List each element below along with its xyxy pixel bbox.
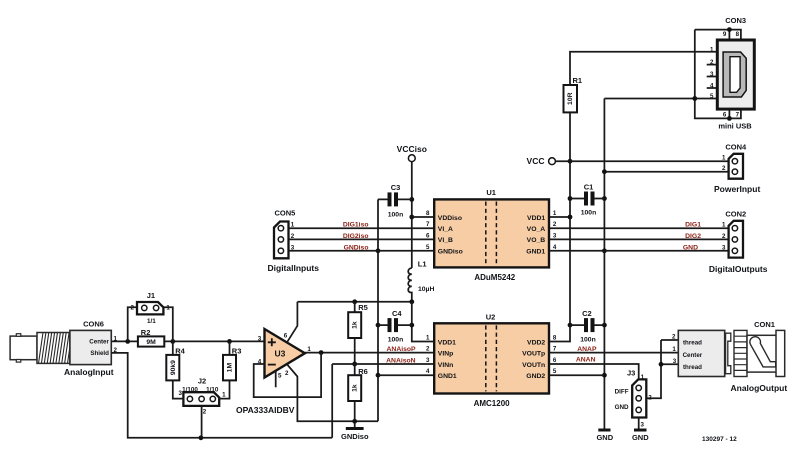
svg-text:3: 3 (710, 71, 714, 78)
svg-text:2: 2 (203, 409, 207, 416)
svg-text:Shield: Shield (90, 350, 109, 357)
IC U2 AMC1200 (434, 323, 549, 393)
wire CON5 pin2 row DIG2iso (284, 238, 435, 240)
wire U1 pin1 link (549, 216, 570, 218)
svg-text:VDD1: VDD1 (527, 215, 545, 222)
wire VCC row to CON4 pin1 (555, 160, 731, 162)
svg-text:thread: thread (683, 340, 702, 347)
svg-text:1k: 1k (352, 384, 359, 392)
svg-text:VDD1: VDD1 (438, 339, 456, 346)
svg-text:5: 5 (426, 244, 430, 251)
svg-text:R2: R2 (141, 328, 151, 337)
svg-text:J2: J2 (198, 376, 206, 385)
svg-text:VO_B: VO_B (527, 237, 546, 244)
svg-text:100n: 100n (581, 210, 597, 217)
svg-text:1: 1 (307, 346, 311, 353)
svg-text:Center: Center (683, 352, 703, 359)
junction C4 left (376, 323, 381, 328)
svg-text:1: 1 (710, 47, 714, 54)
svg-text:AMC1200: AMC1200 (474, 399, 511, 408)
wire CON5 pin3 row GNDiso (284, 250, 435, 252)
svg-text:CON1: CON1 (754, 320, 775, 329)
svg-text:GND2: GND2 (526, 373, 545, 380)
wire U2 VINn row ANAisoN (332, 363, 434, 365)
svg-text:ADuM5242: ADuM5242 (474, 273, 515, 282)
svg-text:DIG2iso: DIG2iso (343, 233, 369, 240)
junction R2 right R4 (170, 339, 175, 344)
svg-text:2: 2 (672, 334, 676, 341)
svg-text:CON2: CON2 (725, 210, 746, 219)
junction center J1 left (125, 339, 130, 344)
svg-text:ANAisoN: ANAisoN (386, 358, 416, 365)
svg-text:VI_B: VI_B (438, 237, 453, 244)
svg-text:2: 2 (285, 370, 289, 377)
svg-text:1/1: 1/1 (147, 318, 156, 325)
wire VCC rail x570 (549, 112, 570, 341)
svg-text:GND: GND (596, 433, 613, 442)
node VCC (549, 158, 556, 165)
svg-text:1/100: 1/100 (182, 386, 198, 393)
wire CON6 shield down and bottom line (111, 353, 332, 438)
svg-text:ANAisoP: ANAisoP (387, 346, 417, 353)
ground symbol GND at x604 (598, 429, 610, 432)
svg-text:PowerInput: PowerInput (714, 184, 760, 194)
svg-text:VDD2: VDD2 (527, 339, 545, 346)
capacitor C4 (378, 324, 412, 326)
junction J2 pin2 bottom (199, 435, 204, 440)
jumper J2 (201, 406, 203, 438)
capacitor C3 (378, 198, 412, 200)
svg-text:mini USB: mini USB (718, 122, 752, 131)
svg-text:100n: 100n (388, 336, 404, 343)
svg-text:3: 3 (553, 232, 557, 239)
wire CON3 top loop (695, 30, 730, 40)
IC U1 ADuM5242 (434, 199, 549, 267)
svg-text:ANAN: ANAN (576, 357, 596, 364)
svg-text:6: 6 (723, 112, 727, 119)
svg-text:2: 2 (648, 395, 652, 402)
svg-text:U3: U3 (275, 349, 286, 359)
svg-text:10µH: 10µH (418, 286, 434, 293)
svg-text:2: 2 (131, 305, 135, 312)
svg-text:CON6: CON6 (83, 319, 104, 328)
svg-text:C1: C1 (584, 182, 594, 191)
junction U3 output (319, 350, 324, 355)
svg-text:GND: GND (632, 433, 649, 442)
junction GND row CON2 (602, 248, 607, 253)
junction U2 GND2 row (602, 373, 607, 378)
svg-text:10R: 10R (567, 92, 574, 105)
svg-text:4: 4 (258, 358, 262, 365)
svg-text:3: 3 (426, 357, 430, 364)
wire VCCiso to U2 VDD1 (412, 302, 434, 342)
svg-text:DigitalInputs: DigitalInputs (268, 263, 320, 273)
wire CON3 pin3 stub (707, 76, 718, 78)
wire U1 GND1 row to CON2 pin3 (549, 250, 732, 252)
svg-text:VCCiso: VCCiso (397, 144, 427, 154)
svg-text:CON4: CON4 (725, 143, 747, 152)
wire U1 VO_A row to CON2 pin1 (549, 227, 732, 229)
svg-text:ANAP: ANAP (577, 346, 597, 353)
U3 pin2 wire V- (287, 364, 378, 421)
svg-text:OPA333AIDBV: OPA333AIDBV (236, 405, 295, 415)
connector CON3 mini USB (717, 40, 754, 109)
svg-text:DigitalOutputs: DigitalOutputs (709, 264, 768, 274)
svg-text:C3: C3 (391, 183, 401, 192)
svg-text:1: 1 (426, 335, 430, 342)
junction C1 right (602, 196, 607, 201)
svg-text:DIG1: DIG1 (685, 222, 701, 229)
svg-text:4: 4 (553, 244, 557, 251)
svg-text:DIFF: DIFF (615, 389, 629, 396)
svg-text:VDDiso: VDDiso (438, 215, 462, 222)
U3 pin4 wire and label (254, 353, 321, 398)
svg-text:VOUTp: VOUTp (522, 350, 545, 357)
svg-text:7: 7 (553, 346, 557, 353)
svg-text:CON3: CON3 (725, 16, 746, 25)
junction C1 left (568, 196, 573, 201)
svg-text:VCC: VCC (527, 156, 545, 166)
junction pin5 left loop (692, 96, 697, 101)
wire U2 VOUTp row ANAP to CON1 center (549, 352, 678, 354)
svg-text:9: 9 (723, 31, 727, 38)
junction R6 bottom GNDiso (352, 419, 357, 424)
junction GND rail CON4 pin2 (602, 169, 607, 174)
capacitor C1 (570, 198, 604, 200)
wire CON6 center row (111, 340, 264, 342)
svg-text:1k: 1k (352, 321, 359, 329)
svg-text:J3: J3 (627, 369, 635, 378)
svg-text:R6: R6 (358, 367, 368, 376)
junction C4 right (409, 323, 414, 328)
junction U1 pin1 (568, 215, 573, 220)
connector CON4 (729, 154, 743, 179)
junction C2 right (602, 323, 607, 328)
junction C3 right (409, 197, 414, 202)
connector CON2 (729, 221, 743, 258)
svg-text:2: 2 (710, 59, 714, 66)
svg-text:1: 1 (641, 374, 645, 381)
svg-text:R1: R1 (573, 76, 583, 85)
junction C2 left (568, 323, 573, 328)
wire CON3 pin1 to R1 top (570, 52, 717, 85)
junction R1 bottom VCC row (568, 159, 573, 164)
svg-text:1/10: 1/10 (206, 386, 219, 393)
svg-text:5: 5 (710, 93, 714, 100)
U3 pin5 stub (275, 371, 277, 387)
svg-text:VO_A: VO_A (527, 226, 546, 233)
svg-text:130297 - 12: 130297 - 12 (702, 436, 737, 443)
svg-text:100n: 100n (580, 336, 596, 343)
junction L1 bottom (409, 299, 414, 304)
svg-text:AnalogInput: AnalogInput (64, 367, 114, 377)
svg-text:AnalogOutput: AnalogOutput (731, 383, 788, 393)
svg-text:L1: L1 (418, 260, 427, 269)
wire U1 VO_B row to CON2 pin2 (549, 238, 732, 240)
wire CON3 left loop / bottom (695, 30, 741, 119)
svg-text:1: 1 (222, 392, 226, 399)
junction CON3 top (727, 27, 732, 32)
svg-text:thread: thread (683, 364, 702, 371)
connector J3 (632, 379, 646, 417)
svg-text:GND: GND (683, 244, 698, 251)
svg-text:VOUTn: VOUTn (522, 362, 545, 369)
svg-text:GNDiso: GNDiso (341, 432, 369, 441)
svg-text:8: 8 (553, 335, 557, 342)
wire CON1 pin2 row (661, 339, 678, 341)
wire VINn down to bottom line (331, 364, 333, 438)
svg-text:6: 6 (426, 232, 430, 239)
svg-text:Center: Center (89, 338, 109, 345)
svg-text:3: 3 (641, 421, 645, 428)
svg-text:R3: R3 (232, 347, 242, 356)
svg-text:90k9: 90k9 (170, 360, 177, 375)
svg-text:1: 1 (166, 305, 170, 312)
svg-text:3: 3 (258, 335, 262, 342)
jumper J1 (128, 307, 173, 341)
wire U2 VINp row ANAisoP (305, 352, 434, 354)
wire U2 GND1 link (378, 374, 434, 376)
node VCCiso (408, 155, 415, 162)
capacitor C2 (570, 324, 604, 326)
U3 pin6 wire V+ (287, 302, 297, 343)
resistor R6 (354, 364, 356, 421)
inductor L1 (408, 268, 412, 302)
connector CON5 (274, 222, 289, 259)
svg-text:GNDiso: GNDiso (438, 249, 463, 256)
svg-text:100n: 100n (388, 212, 404, 219)
svg-text:1: 1 (553, 210, 557, 217)
svg-text:1M: 1M (226, 363, 233, 373)
svg-text:3: 3 (722, 244, 726, 251)
svg-text:3: 3 (673, 358, 677, 365)
junction CON3 bottom (727, 116, 732, 121)
svg-text:GND1: GND1 (526, 249, 545, 256)
svg-text:7: 7 (736, 112, 740, 119)
wire VCCiso rail (411, 162, 413, 268)
svg-text:7: 7 (426, 221, 430, 228)
svg-text:2: 2 (291, 233, 295, 240)
svg-text:C4: C4 (392, 309, 402, 318)
svg-text:8: 8 (426, 210, 430, 217)
wire J3 pin3 to ground (638, 418, 640, 429)
svg-text:J1: J1 (147, 291, 155, 300)
connector CON1 BNC analog output (678, 330, 784, 376)
svg-text:GND1: GND1 (438, 373, 457, 380)
wire U2 VOUTn row ANAN to J3 pin1 (549, 364, 639, 379)
svg-text:U1: U1 (486, 188, 496, 197)
junction U1 pin8 (409, 215, 414, 220)
resistor R3 (219, 341, 229, 398)
op-amp U3 OPA333AIDBV (265, 329, 305, 378)
wire CON3 pin2 stub (707, 64, 718, 66)
svg-text:R5: R5 (358, 303, 368, 312)
svg-text:9M: 9M (146, 339, 156, 346)
ground symbol GNDiso (354, 421, 356, 427)
svg-text:C2: C2 (582, 309, 592, 318)
svg-text:1: 1 (291, 222, 295, 229)
wire CON3 pin4 stub (707, 87, 718, 89)
svg-text:U2: U2 (486, 313, 496, 322)
svg-text:6: 6 (553, 357, 557, 364)
ground symbol GND at J3 (634, 429, 647, 432)
junction R5 top (352, 299, 357, 304)
junction R5 R6 ANAisoN (352, 362, 357, 367)
wire U1 pin8 link (412, 216, 434, 218)
svg-text:DIG1iso: DIG1iso (343, 222, 369, 229)
junction R3 top (227, 339, 232, 344)
wire R5 top row from U3 pin6 to L1 (297, 301, 411, 303)
svg-text:2: 2 (426, 346, 430, 353)
svg-text:1: 1 (722, 222, 726, 229)
wire CON3 pin5 to GND rail (604, 98, 717, 100)
svg-text:4: 4 (710, 82, 714, 89)
junction U2 GND1 (376, 373, 381, 378)
svg-text:3: 3 (291, 244, 295, 251)
svg-text:VI_A: VI_A (438, 226, 453, 233)
connector CON6 BNC analog input (10, 330, 111, 364)
wire CON1 pin3 row (661, 363, 678, 365)
svg-text:DIG2: DIG2 (685, 233, 701, 240)
svg-text:GNDiso: GNDiso (344, 244, 369, 251)
wire CON1 threads vertical (646, 340, 661, 398)
wire GNDiso rail x378 (377, 199, 379, 421)
svg-text:R4: R4 (175, 347, 185, 356)
svg-text:6: 6 (284, 332, 288, 339)
wire CON3 pin8 stub (729, 30, 741, 40)
svg-text:5: 5 (553, 368, 557, 375)
svg-text:VINp: VINp (438, 350, 453, 357)
svg-text:2: 2 (722, 165, 726, 172)
resistor R4 (173, 341, 184, 398)
svg-text:1: 1 (722, 155, 726, 162)
svg-text:GND: GND (615, 404, 629, 411)
svg-text:5: 5 (278, 373, 282, 380)
wire U2 GND2 link (549, 374, 604, 376)
svg-text:VINn: VINn (438, 362, 453, 369)
svg-text:1: 1 (672, 346, 676, 353)
svg-text:2: 2 (722, 233, 726, 240)
wire CON5 pin1 row DIG1iso (284, 227, 435, 229)
svg-text:8: 8 (736, 31, 740, 38)
svg-text:4: 4 (426, 368, 430, 375)
svg-text:3: 3 (178, 390, 182, 397)
svg-text:CON5: CON5 (274, 209, 295, 218)
wire CON3 pin6 stub (728, 109, 730, 118)
resistor R5 (354, 302, 356, 364)
wire CON4 pin2 row (604, 171, 731, 173)
junction GNDiso row (376, 248, 381, 253)
wire GND rail x604 (603, 99, 605, 429)
resistor R1 (569, 85, 571, 112)
svg-text:2: 2 (553, 221, 557, 228)
junction threads (659, 362, 664, 367)
resistor R2 (138, 336, 164, 346)
